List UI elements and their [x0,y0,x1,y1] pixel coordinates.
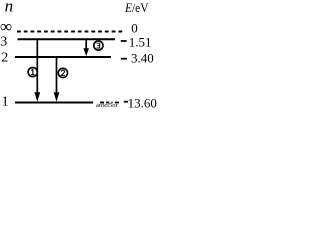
svg-text:1.51: 1.51 [129,35,152,50]
transition arrow 3 shaft (n=3 to n=2) [85,39,87,50]
transition arrow 2 head [54,92,60,101]
minus sign for -1.51 [121,40,127,42]
transition arrow 1 shaft (n=3 to n=1) [36,39,38,94]
svg-text:∞: ∞ [0,17,12,36]
svg-text:3: 3 [0,35,7,50]
circled label 1 [28,67,37,76]
transition arrow 3 head [83,48,89,56]
level n=1 line dashed continuation [100,102,119,104]
circled label 2 [58,68,67,77]
level n=2 line [15,56,111,58]
level n=1 line solid part [15,102,93,104]
minus sign for -13.60 [124,101,128,103]
svg-text:E/eV: E/eV [124,0,149,15]
circled label 3 [94,41,103,50]
transition arrow 1 head [34,92,40,101]
svg-text:n: n [5,0,14,16]
transition arrow 2 shaft (n=2 to n=1) [56,57,58,94]
level n=3 line [18,38,116,40]
background [0,0,160,109]
svg-text:2: 2 [1,51,8,66]
minus sign for -3.40 [121,58,127,60]
svg-text:1: 1 [2,94,9,109]
svg-text:0: 0 [131,21,138,36]
svg-text:13.60: 13.60 [128,96,157,109]
svg-text:anfei5or: anfei5or [96,102,118,109]
level n=infinity dashed line [17,31,122,33]
svg-text:3.40: 3.40 [131,51,154,66]
